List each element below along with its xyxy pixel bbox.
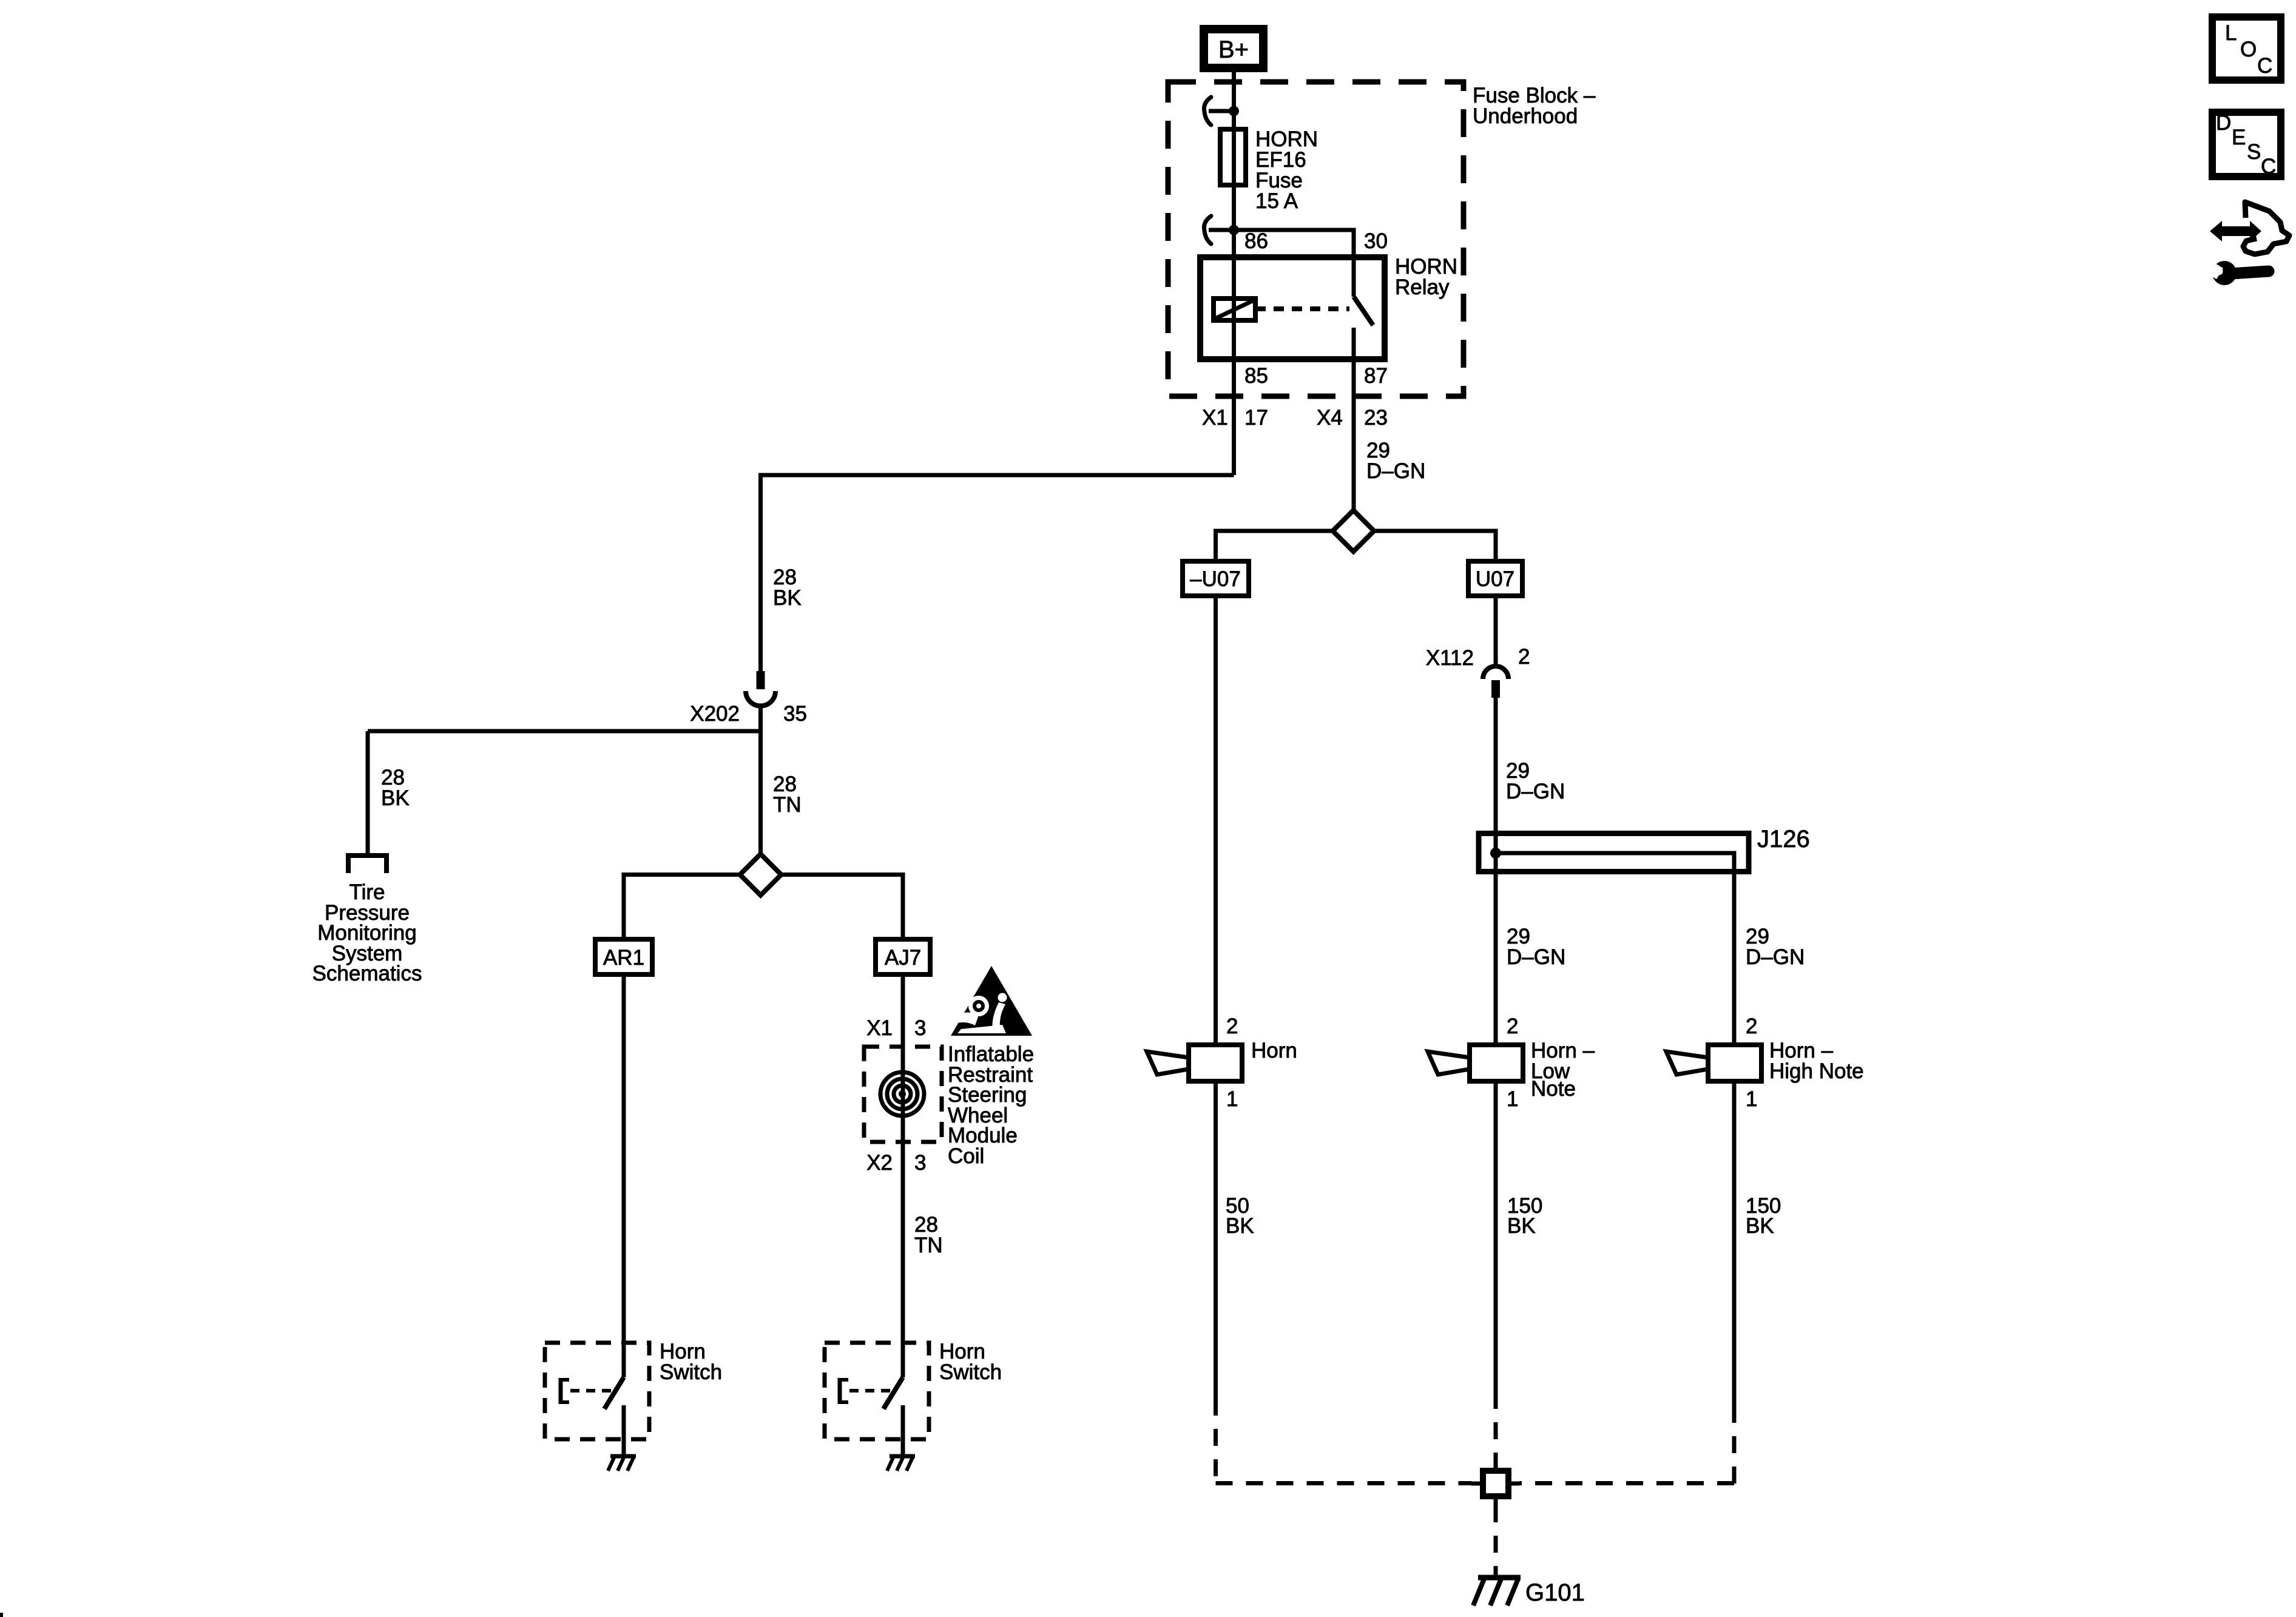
svg-text:23: 23 bbox=[1364, 406, 1388, 430]
svg-text:G101: G101 bbox=[1525, 1579, 1585, 1606]
svg-text:X1: X1 bbox=[866, 1016, 893, 1040]
svg-text:C: C bbox=[2261, 155, 2276, 178]
svg-text:Coil: Coil bbox=[948, 1144, 984, 1168]
svg-text:S: S bbox=[2247, 140, 2261, 164]
svg-text:TN: TN bbox=[773, 793, 802, 817]
svg-text:1: 1 bbox=[1746, 1087, 1757, 1111]
svg-text:17: 17 bbox=[1244, 406, 1268, 430]
svg-text:E: E bbox=[2232, 126, 2246, 149]
svg-text:AR1: AR1 bbox=[603, 946, 644, 970]
svg-text:87: 87 bbox=[1364, 364, 1388, 388]
svg-text:Switch: Switch bbox=[660, 1360, 722, 1384]
svg-text:J126: J126 bbox=[1757, 826, 1810, 852]
svg-text:Schematics: Schematics bbox=[312, 962, 422, 985]
svg-text:2: 2 bbox=[1518, 645, 1530, 669]
svg-text:1: 1 bbox=[1226, 1087, 1238, 1111]
svg-text:X1: X1 bbox=[1202, 406, 1228, 430]
svg-text:Note: Note bbox=[1531, 1077, 1576, 1101]
svg-text:D–GN: D–GN bbox=[1366, 459, 1425, 483]
svg-text:C: C bbox=[2257, 54, 2272, 78]
svg-text:AJ7: AJ7 bbox=[885, 946, 921, 970]
svg-text:30: 30 bbox=[1364, 229, 1388, 253]
svg-text:2: 2 bbox=[1507, 1014, 1518, 1038]
svg-text:35: 35 bbox=[783, 702, 807, 726]
svg-text:BK: BK bbox=[1746, 1214, 1774, 1238]
svg-text:BK: BK bbox=[1507, 1214, 1536, 1238]
svg-text:Underhood: Underhood bbox=[1473, 104, 1578, 128]
svg-text:X202: X202 bbox=[690, 702, 740, 726]
svg-text:D–GN: D–GN bbox=[1507, 945, 1565, 969]
svg-text:D–GN: D–GN bbox=[1506, 780, 1565, 803]
svg-text:86: 86 bbox=[1244, 229, 1268, 253]
svg-text:X112: X112 bbox=[1426, 646, 1474, 670]
svg-text:–U07: –U07 bbox=[1190, 567, 1241, 591]
svg-text:1: 1 bbox=[1507, 1087, 1518, 1111]
svg-text:O: O bbox=[2240, 38, 2257, 61]
svg-text:X2: X2 bbox=[866, 1151, 893, 1175]
svg-text:85: 85 bbox=[1244, 364, 1268, 388]
svg-text:Relay: Relay bbox=[1395, 275, 1450, 299]
svg-text:High Note: High Note bbox=[1769, 1059, 1864, 1083]
svg-text:BK: BK bbox=[1226, 1214, 1254, 1238]
svg-text:15 A: 15 A bbox=[1255, 189, 1298, 213]
svg-text:D–GN: D–GN bbox=[1746, 945, 1805, 969]
svg-text:2: 2 bbox=[1746, 1014, 1757, 1038]
svg-text:3: 3 bbox=[914, 1016, 926, 1040]
svg-text:TN: TN bbox=[914, 1234, 943, 1257]
svg-text:B+: B+ bbox=[1218, 36, 1249, 63]
svg-text:Switch: Switch bbox=[939, 1360, 1002, 1384]
svg-text:3: 3 bbox=[914, 1151, 926, 1175]
svg-text:U07: U07 bbox=[1476, 567, 1514, 591]
svg-text:L: L bbox=[2225, 21, 2237, 45]
svg-text:D: D bbox=[2216, 111, 2231, 135]
svg-text:2: 2 bbox=[1226, 1014, 1238, 1038]
svg-text:Horn: Horn bbox=[1251, 1039, 1297, 1062]
svg-text:BK: BK bbox=[773, 586, 802, 610]
svg-text:X4: X4 bbox=[1317, 406, 1343, 430]
svg-text:BK: BK bbox=[381, 786, 410, 810]
